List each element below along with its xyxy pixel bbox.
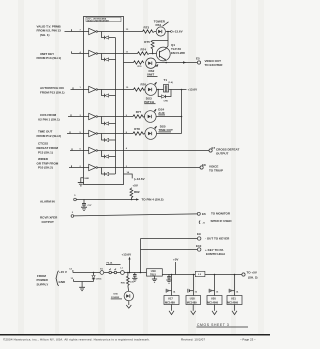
svg-text:MC14066: MC14066 [207,301,218,304]
terminal E8 [200,163,223,172]
wire row4 output [98,115,128,117]
wire T1 out to +13.6V [169,88,198,92]
wire E8 voice id [124,167,201,169]
IC U11 [164,274,179,305]
wire E7 cross defeat [124,150,210,152]
node junction [157,89,164,91]
svg-text:+15 V: +15 V [59,270,67,274]
svg-text:+5V: +5V [173,257,178,261]
terminal rcvr xfer output [40,212,74,224]
node +13.6V tap [122,252,132,273]
wire row1 output [98,29,130,32]
wire xfer to E6 [74,214,198,216]
LED DS2 xmit [146,58,158,77]
ground arrow U14 [232,305,237,315]
svg-text:FROM P13 (SH.1): FROM P13 (SH.1) [40,90,65,94]
svg-text:VALID T.V. PRMB: VALID T.V. PRMB [37,24,62,28]
svg-text:EM FLWR: EM FLWR [171,51,186,55]
svg-text:(SH. 1): (SH. 1) [40,33,50,37]
svg-text:QUAD LINE RECEIVER: QUAD LINE RECEIVER [87,19,109,22]
svg-text:FROM P13 (SH.1): FROM P13 (SH.1) [37,56,62,60]
svg-text:U21: U21 [231,297,236,301]
relay T1 [164,78,174,92]
resistor R78 aux [124,110,145,118]
svg-text:R82: R82 [134,190,140,194]
ground arrow U12 [191,305,196,315]
svg-text:EXMTR HIGH: EXMTR HIGH [206,252,225,256]
connector P4/J4 [104,262,121,274]
svg-text:TIME OUT: TIME OUT [38,129,52,133]
terminal E5 [196,56,223,67]
wire row1 input [65,29,89,31]
wire row5 output [98,132,128,134]
wire node +13.6V row1 [166,30,183,34]
svg-text:R75: R75 [144,40,150,44]
svg-text:R77: R77 [136,110,142,114]
svg-text:CR6: CR6 [164,101,169,103]
svg-text:COS FROM: COS FROM [40,113,57,117]
resistor R77 patch [124,82,147,91]
ground [79,282,85,291]
svg-text:78L5: 78L5 [150,273,156,277]
LED DS5 timeout [145,125,173,140]
diode CR row7 [102,168,116,176]
resistor R82 [130,188,140,199]
LED DS4 aux [145,108,166,123]
svg-text:SPKR IF USED: SPKR IF USED [211,219,233,223]
diode CR6 [158,90,171,103]
wire row5 input [67,131,89,134]
wire row4 input [68,114,89,117]
svg-text:P10 (SH.2): P10 (SH.2) [38,166,53,170]
svg-text:MC14066: MC14066 [227,301,238,304]
svg-text:FROM P12 (SH.2): FROM P12 (SH.2) [37,134,62,138]
ground arrow U11 [169,305,174,315]
svg-text:+13.6V: +13.6V [122,252,132,256]
wire row7 output to E8 [98,166,128,168]
terminal E11 alarm in [40,195,76,203]
svg-text:FROM U2, PIN 13: FROM U2, PIN 13 [37,29,62,33]
svg-text:CMOS SHEET 3: CMOS SHEET 3 [197,323,229,327]
node cmos sheet 3 [197,323,249,327]
label row3 input [40,86,65,94]
wire timeout to bus [157,133,182,135]
svg-text:OUTPUT: OUTPUT [42,220,55,224]
svg-text:RCVR XFER: RCVR XFER [40,216,58,220]
pin 14 [69,267,73,272]
svg-text:+ KEY TO PA: + KEY TO PA [205,248,224,252]
terminal power in [100,271,104,275]
svg-text:POWER: POWER [37,278,49,282]
svg-text:E8: E8 [202,163,206,167]
LED DS6 power [111,291,134,300]
terminal +5V out [242,270,258,279]
LED DS3 patch [144,82,156,104]
resistor R76 [124,61,144,68]
svg-text:GND: GND [59,280,67,284]
node bus +13.6 vertical [181,90,183,134]
diode CR row4 [102,117,116,126]
node: diode bus [115,38,117,175]
wire aux to bus [156,116,182,118]
buffer U17a [89,28,98,34]
label power input [59,270,67,284]
svg-text:E7: E7 [212,146,216,150]
svg-text:R74: R74 [141,48,147,52]
label row2 input [37,52,62,60]
buffer U17b [89,50,98,56]
ground [132,278,137,281]
pin GND of IC box [81,178,90,183]
svg-text:WIRED: WIRED [38,157,49,161]
buffer U17d [89,113,98,119]
ground [81,207,87,210]
wire E10 [141,249,198,251]
IC U13 [207,274,222,305]
svg-text:U20: U20 [211,297,216,301]
svg-text:R73: R73 [144,26,150,30]
svg-text:TO PIN 4 (SH.2): TO PIN 4 (SH.2) [142,198,164,202]
jumper 2.5 [195,271,205,276]
svg-text:E9: E9 [197,232,201,236]
svg-text:(SH. 2): (SH. 2) [248,276,258,280]
wire row6 input [70,148,89,150]
ground arrow [126,301,131,309]
svg-text:TO +5V: TO +5V [247,270,257,274]
node raw supply bus [140,239,142,274]
capacitor C38 [166,274,171,283]
svg-text:(+13.6V: (+13.6V [134,177,145,181]
diode CR row1 [102,32,116,40]
pin 13 [71,278,74,281]
buffer U18c [89,164,98,170]
label row4 input [38,113,60,121]
label row6 input [37,142,59,155]
wire row3 input [71,87,89,89]
terminal E7 [209,146,239,156]
diode CR row3 [102,90,116,98]
svg-text:E6: E6 [202,212,206,216]
svg-text:XMIT KEY: XMIT KEY [40,52,54,56]
wire E5 output [156,61,197,63]
svg-text:E5: E5 [196,56,200,60]
IC U12 [186,274,201,305]
svg-text:+13.6V: +13.6V [188,88,198,92]
label row7 input [37,157,59,170]
ground U19 [152,276,157,282]
resistor R73 [124,26,155,34]
svg-text:U17: U17 [168,297,173,301]
buffer U17c [89,86,98,92]
ground arrow U13 [212,305,217,315]
terminal E9 [197,232,230,241]
svg-text:MC1489: MC1489 [187,300,197,304]
LED DS1 tower [154,19,169,36]
svg-text:+5V: +5V [133,183,138,187]
svg-text:– Page 23 –: – Page 23 – [240,337,256,341]
buffer U18b [89,147,98,153]
buffer U18a [89,130,98,136]
ground [78,183,84,186]
terminal E10 [196,244,225,256]
regulator U19 [147,269,163,277]
pin 14 +13.6V supply of IC box [124,171,145,181]
diode CR row6 [102,151,116,159]
wire collector feed [165,31,169,50]
svg-text:P13 (SH.1): P13 (SH.1) [38,151,53,155]
wire +15V [73,272,100,274]
svg-text:GND: GND [84,178,89,180]
diode CR15 [92,272,102,282]
svg-text:OR TRIP FROM: OR TRIP FROM [37,161,59,165]
svg-text:(1:4): (1:4) [168,81,173,84]
resistor R74 [124,48,157,56]
svg-text:+13.6V: +13.6V [173,30,183,34]
svg-text:Revised: 10/2/07: Revised: 10/2/07 [181,337,205,341]
svg-text:MC1489: MC1489 [165,300,175,304]
diode CR row2 [102,54,116,62]
svg-text:SUPPLY: SUPPLY [37,283,49,287]
label power supply [37,271,59,287]
svg-text:AUTOPATCH ON: AUTOPATCH ON [40,86,64,90]
transistor Q1 [156,43,185,61]
wire gnd [74,281,94,283]
svg-text:CTCSS: CTCSS [38,142,48,146]
inductor L1 [117,267,147,274]
svg-text:E10: E10 [196,244,202,248]
svg-text:U18: U18 [190,297,195,301]
wire alarm in [76,198,163,202]
resistor R79 timeout [124,127,145,135]
svg-text:U19: U19 [151,269,156,273]
IC U14 [227,274,242,305]
node +5V pullup [132,183,138,188]
wire +5V rail [162,257,242,274]
wire row6 output to E7 [98,147,128,150]
label row1 input [37,24,62,37]
wire row2 output [98,52,129,54]
svg-text:DEFEAT FROM: DEFEAT FROM [37,146,59,150]
IC box U17/U18 quad line receiver [84,17,124,185]
resistor R75 [144,40,168,54]
capacitor C37 [82,199,92,207]
footer bar [0,335,270,342]
wire row7 input [69,165,89,168]
label row5 input [37,129,62,137]
wire row2 input [72,51,89,54]
svg-text:DS1: DS1 [156,23,162,27]
terminal J1 [199,221,206,225]
svg-text:FROM: FROM [37,274,46,278]
svg-text:ALARM IN: ALARM IN [40,199,55,203]
svg-text:CR15: CR15 [96,279,102,281]
svg-text:©2004 Hamtronics, inc., Hilto: ©2004 Hamtronics, inc., Hilton NY, USA. … [3,337,150,341]
svg-text:R78: R78 [134,127,140,131]
terminal E6 [197,212,232,223]
svg-text:- OUT TO KEYER: - OUT TO KEYER [205,237,230,241]
svg-text:OUTPUT: OUTPUT [216,151,229,155]
capacitor C36 [130,273,137,284]
resistor R80 [121,272,129,292]
svg-text:R76: R76 [141,82,147,86]
wire row3 output [98,87,130,90]
svg-text:TO EXCITER: TO EXCITER [205,63,224,67]
svg-text:XMIT: XMIT [147,73,154,77]
svg-text:U2 PIN 1 (SH.1): U2 PIN 1 (SH.1) [38,118,60,122]
svg-text:TO TRIUP: TO TRIUP [209,168,223,172]
diode CR row5 [102,134,116,142]
wire E9 [141,238,198,240]
svg-text:TO MONITOR: TO MONITOR [211,212,231,216]
svg-text:T1: T1 [164,78,168,82]
